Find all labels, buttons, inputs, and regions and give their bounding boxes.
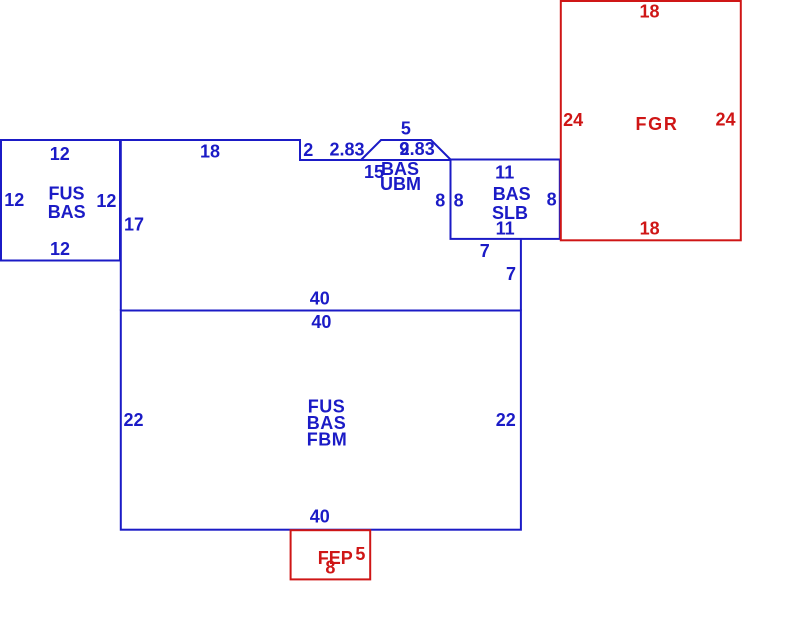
- svg-text:7: 7: [480, 241, 490, 261]
- svg-text:17: 17: [124, 215, 144, 235]
- svg-text:12: 12: [96, 191, 116, 211]
- svg-text:FBM: FBM: [307, 430, 348, 450]
- svg-text:12: 12: [50, 144, 70, 164]
- svg-text:5: 5: [355, 544, 365, 564]
- svg-text:40: 40: [311, 312, 331, 332]
- svg-text:2.83: 2.83: [400, 139, 435, 159]
- svg-text:12: 12: [4, 190, 24, 210]
- svg-text:7: 7: [506, 264, 516, 284]
- svg-text:2.83: 2.83: [329, 140, 364, 160]
- svg-text:22: 22: [496, 410, 516, 430]
- svg-text:FUS: FUS: [49, 184, 85, 204]
- svg-text:18: 18: [639, 2, 659, 22]
- svg-text:12: 12: [50, 239, 70, 259]
- svg-text:8: 8: [454, 190, 464, 210]
- svg-text:11: 11: [496, 219, 515, 239]
- svg-text:FGR: FGR: [635, 114, 678, 134]
- svg-text:BAS: BAS: [493, 184, 531, 204]
- svg-text:22: 22: [123, 410, 143, 430]
- svg-text:24: 24: [563, 110, 583, 130]
- svg-text:UBM: UBM: [380, 174, 421, 194]
- svg-text:8: 8: [547, 190, 557, 210]
- svg-text:BAS: BAS: [48, 202, 86, 222]
- svg-text:8: 8: [435, 190, 445, 210]
- svg-text:40: 40: [310, 506, 330, 526]
- svg-text:8: 8: [325, 558, 335, 578]
- svg-text:11: 11: [495, 163, 514, 183]
- svg-text:2: 2: [303, 140, 313, 160]
- svg-text:24: 24: [715, 110, 735, 130]
- svg-text:18: 18: [640, 219, 660, 239]
- svg-text:40: 40: [310, 288, 330, 308]
- svg-text:5: 5: [401, 119, 411, 139]
- svg-text:18: 18: [200, 142, 220, 162]
